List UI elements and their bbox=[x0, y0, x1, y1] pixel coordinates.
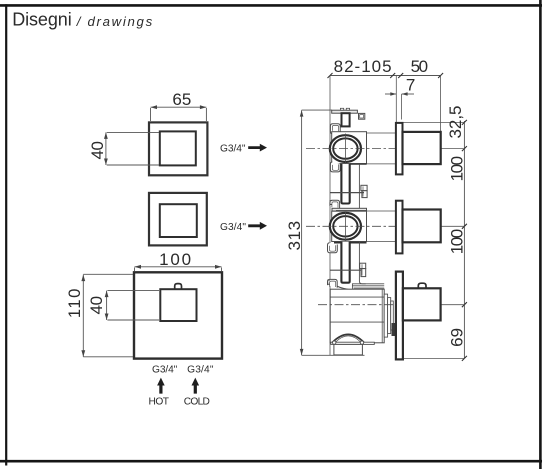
pipe between valve2 and valve3 bbox=[341, 242, 349, 283]
svg-text:65: 65 bbox=[172, 90, 191, 109]
frame bottom border bbox=[0, 460, 542, 463]
arrow right no.2 bbox=[248, 222, 267, 230]
arrow up hot bbox=[157, 378, 165, 394]
ext line valve3 center bbox=[441, 304, 465, 306]
dim 100 arrowheads bbox=[135, 265, 222, 269]
svg-text:100: 100 bbox=[447, 156, 466, 182]
plate 65 outer square bbox=[149, 122, 207, 175]
valve1 spindle top line bbox=[367, 132, 397, 134]
ext line 32.5 top bbox=[404, 121, 465, 123]
valve3 right inner edge bbox=[381, 289, 383, 343]
svg-text:40: 40 bbox=[88, 141, 107, 160]
svg-text:100: 100 bbox=[447, 229, 466, 255]
valve3 top cap layers bbox=[352, 284, 384, 293]
extension line wall plate back bbox=[395, 76, 397, 123]
dim 65 arrowheads bbox=[151, 105, 207, 109]
dim 40 (plate 65) dimension line bbox=[106, 132, 159, 165]
ext line 69 bottom bbox=[404, 357, 465, 359]
svg-text:69: 69 bbox=[447, 328, 466, 347]
pipe between valve1 and valve2 bbox=[341, 164, 349, 204]
svg-text:50: 50 bbox=[411, 57, 429, 76]
valve2 left claw lower bbox=[328, 243, 338, 253]
tab station1-2 bbox=[361, 185, 367, 190]
valve2 top slab bbox=[332, 208, 367, 211]
valve1 connection ring inner bbox=[333, 138, 357, 158]
valve1 block bottom edge bbox=[333, 163, 367, 165]
valve2 vertical center line bbox=[344, 212, 346, 242]
svg-text:313: 313 bbox=[285, 221, 304, 251]
ext line valve1 center bbox=[441, 148, 465, 150]
svg-text:G3/4": G3/4" bbox=[220, 222, 246, 233]
right vertical dimension line bbox=[463, 121, 465, 359]
valve3 claw fitting bbox=[328, 279, 338, 287]
frame right border bbox=[539, 0, 542, 469]
dim 100 dimension line bbox=[135, 267, 222, 271]
dim 313 arrowheads bbox=[300, 110, 304, 355]
rail right line station2-3 bbox=[359, 242, 365, 284]
svg-text:G3/4": G3/4" bbox=[187, 364, 214, 375]
center line valve1 bbox=[306, 148, 396, 150]
svg-text:HOT: HOT bbox=[149, 396, 170, 407]
svg-text:40: 40 bbox=[87, 296, 106, 315]
dim 65 dimension line bbox=[151, 107, 207, 121]
valve3 arch bolts bbox=[333, 341, 336, 344]
valve1 connection ring outer bbox=[330, 135, 361, 162]
plate 100x110 outer square bbox=[134, 272, 222, 358]
valve2 spindle bottom line bbox=[367, 241, 397, 243]
dim 40 (plate 65) arrowheads bbox=[104, 132, 108, 165]
valve1 top slab bbox=[332, 110, 358, 113]
wall plate 1 edge view bbox=[396, 123, 403, 174]
valve3 spindle stack bbox=[384, 294, 387, 337]
rail right line station1-2 bbox=[358, 164, 360, 208]
svg-text:82-105: 82-105 bbox=[334, 57, 392, 76]
joint line station1-2 bbox=[330, 192, 364, 194]
valve3 arch bbox=[332, 334, 364, 342]
plate 100x110 inner square bbox=[160, 289, 196, 321]
knob 3 safety button bbox=[418, 283, 426, 288]
knob 1 bbox=[403, 132, 441, 164]
valve2 claw upper bbox=[330, 200, 340, 208]
center line valve3 bbox=[318, 304, 396, 306]
knob 2 bbox=[403, 210, 441, 243]
ext line valve2 center bbox=[441, 225, 465, 227]
dim 40 (plate 100) dimension line bbox=[107, 291, 159, 320]
dim 110 dimension line bbox=[83, 274, 133, 357]
extension line knob face bbox=[440, 76, 442, 134]
valve3 claw to cap curve bbox=[337, 286, 352, 289]
svg-text:110: 110 bbox=[65, 289, 84, 319]
svg-text:7: 7 bbox=[406, 76, 415, 95]
top dimension line bbox=[330, 75, 441, 77]
svg-text:G3/4": G3/4" bbox=[152, 364, 178, 375]
tab station2-3 bbox=[360, 263, 366, 268]
valve1 top screw bbox=[342, 113, 350, 126]
svg-text:Disegni: Disegni bbox=[12, 9, 71, 29]
valve1 vertical center line bbox=[344, 134, 346, 164]
valve3 block mid line bbox=[330, 321, 384, 323]
top dim slash ticks bbox=[328, 73, 444, 78]
frame left border bbox=[5, 4, 7, 465]
valve3 bottom stub bbox=[334, 344, 363, 355]
valve1 right tab upper bbox=[359, 113, 365, 119]
wall plate 3 edge view bbox=[396, 272, 403, 360]
wall plate 2 edge view bbox=[396, 201, 403, 254]
dim 313 dimension line bbox=[302, 110, 365, 355]
plate 65 inner square bbox=[160, 131, 196, 165]
right dim slash ticks bbox=[462, 120, 467, 361]
valve3 block top line bbox=[330, 296, 384, 298]
valve1 block bbox=[332, 132, 367, 164]
plate 65 no.2 inner square bbox=[160, 204, 197, 237]
valve2 connection ring outer bbox=[330, 213, 361, 240]
slab1 notches bbox=[340, 108, 343, 110]
valve3 spindle dark piece bbox=[392, 323, 396, 336]
svg-text:32,5: 32,5 bbox=[446, 106, 465, 139]
knob 3 bbox=[403, 288, 441, 320]
valve1 spindle bottom line bbox=[367, 163, 397, 165]
center line valve2 bbox=[306, 225, 396, 227]
arrow up cold bbox=[192, 378, 200, 394]
valve3 bottom flange band bbox=[331, 342, 375, 344]
extension line wall plate front bbox=[401, 94, 403, 120]
extension line body back bbox=[329, 76, 331, 356]
valve2 connection ring inner bbox=[333, 216, 357, 236]
frame top border bbox=[0, 4, 542, 7]
valve2 block bottom edge bbox=[334, 242, 367, 244]
dim 110 arrowheads bbox=[81, 275, 85, 357]
svg-text:COLD: COLD bbox=[184, 396, 210, 407]
joint line station2-3 bbox=[330, 269, 361, 271]
plate 100x110 knob button bbox=[175, 284, 182, 290]
valve2 block bbox=[332, 211, 367, 241]
valve3 block bbox=[330, 289, 384, 343]
valve1 left claw lower bbox=[330, 162, 340, 172]
svg-text:G3/4": G3/4" bbox=[220, 144, 246, 155]
dim 40 (plate 100) arrowheads bbox=[105, 291, 109, 320]
svg-text:/ drawings: / drawings bbox=[76, 14, 153, 29]
valve2 spindle top line bbox=[367, 210, 397, 212]
dim 7 lines and arrows bbox=[385, 93, 414, 95]
arrow right no.1 bbox=[248, 144, 267, 152]
plate 65 no.2 outer square bbox=[149, 193, 207, 246]
valve1 left claw upper bbox=[330, 124, 340, 134]
